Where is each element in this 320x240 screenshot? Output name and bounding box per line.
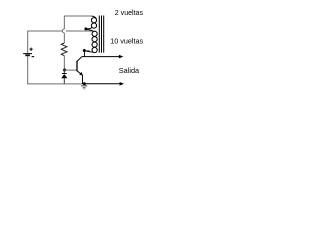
output line top (Salida +) with arrow	[82, 55, 124, 59]
node: collector / output junction dot	[83, 49, 86, 52]
svg-text:Salida: Salida	[119, 66, 140, 75]
diode D1 (anode bottom, cathode bar top)	[61, 71, 67, 84]
wire: dot to secondary bottom	[84, 50, 89, 52]
wire: battery + rail to center tap (horizontal, y=30.7)	[28, 30, 92, 32]
output line bottom (Salida -) with arrow	[83, 82, 124, 86]
svg-text:10 vueltas: 10 vueltas	[110, 36, 143, 45]
transformer secondary winding L2 (10 vueltas)	[86, 30, 98, 53]
battery - mark	[32, 56, 35, 58]
wire: feedback winding top lead (y=16)	[64, 15, 91, 17]
svg-text:2 vueltas: 2 vueltas	[115, 10, 144, 17]
ground symbol	[81, 86, 87, 90]
transistor Q1 collector	[77, 57, 82, 62]
node: center tap dot	[84, 27, 87, 30]
battery + mark	[30, 48, 33, 51]
wire: left rail below battery	[27, 56, 29, 84]
wire: vertical feed x=64.2 from top wire to hop	[63, 16, 65, 29]
wire: bottom rail (y=83.7)	[27, 83, 83, 85]
battery B1 plates	[23, 54, 32, 56]
transformer primary winding L1 (2 vueltas)	[87, 16, 97, 29]
wire: resistor bottom lead to base node	[63, 56, 65, 70]
resistor R1 zigzag	[61, 43, 67, 56]
node: base junction dot	[63, 69, 66, 72]
transistor Q1 emitter with arrow	[77, 71, 83, 84]
wire: base wire to transistor	[64, 69, 76, 71]
transformer core (3 lines)	[99, 16, 103, 53]
wire hop: crossing over +rail without connection	[62, 29, 64, 33]
node: emitter/ground junction dot	[83, 82, 86, 85]
wire: left rail (vertical x=27.7)	[27, 31, 29, 53]
transistor Q1 base bar	[76, 61, 78, 71]
wire: hop to resistor top	[63, 33, 65, 43]
wire: stub from dot down to output line	[84, 51, 86, 57]
